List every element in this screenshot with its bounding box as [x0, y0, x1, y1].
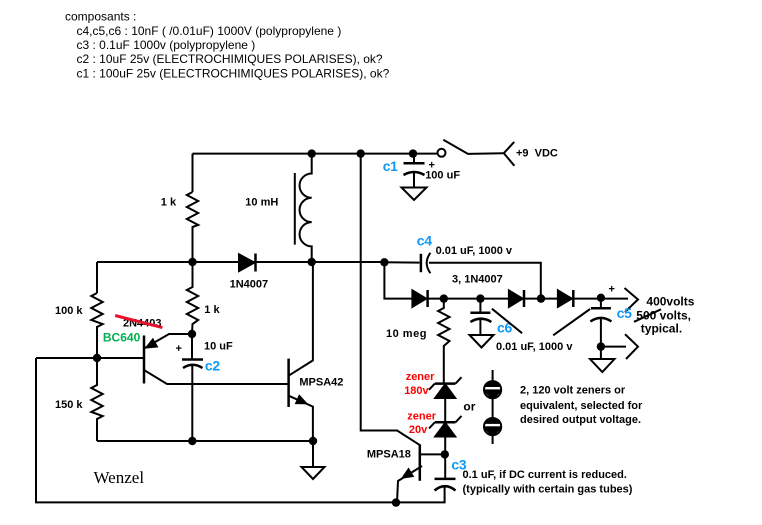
circle symbol alt zener 1 [483, 370, 503, 444]
svg-text:equivalent, selected for: equivalent, selected for [520, 400, 643, 412]
switch terminal circle [438, 149, 446, 157]
svg-text:c2 : 10uF 25v (ELECTROCHIMIQUE: c2 : 10uF 25v (ELECTROCHIMIQUES POLARISE… [77, 52, 383, 66]
label c2 [205, 358, 220, 374]
capacitor C4 [384, 253, 540, 299]
label zener note line2 [520, 400, 643, 412]
svg-text:c4: c4 [417, 233, 432, 249]
label c5 [617, 305, 632, 321]
svg-text:1 k: 1 k [161, 197, 177, 209]
svg-text:c1: c1 [383, 158, 398, 174]
red strikethrough 2N4403 [115, 316, 162, 328]
label 10 meg [386, 328, 427, 340]
capacitor C3 [435, 479, 456, 491]
zener diode Z1 180v [429, 377, 462, 422]
svg-text:20v: 20v [409, 424, 428, 436]
svg-text:zener: zener [407, 411, 436, 423]
svg-text:zener: zener [406, 371, 435, 383]
svg-text:10 mH: 10 mH [245, 197, 278, 209]
svg-text:+: + [176, 343, 182, 355]
connector flag +9VDC [504, 142, 515, 166]
diode D2 [412, 290, 427, 307]
wire c5 to output flag2 [601, 346, 626, 348]
svg-text:100 uF: 100 uF [425, 170, 460, 182]
transistor Q1 BC640 [144, 334, 289, 384]
svg-text:c6: c6 [497, 320, 512, 336]
resistor R 1k (top left) [187, 192, 198, 262]
ground c5 [590, 359, 615, 372]
svg-text:composants :: composants : [65, 10, 136, 24]
zener diode Z2 20v [429, 416, 462, 479]
label MPSA42 [299, 377, 343, 389]
label Wenzel [94, 468, 145, 487]
svg-text:BC640: BC640 [103, 331, 141, 345]
label 0.01 uF, 1000 v second [496, 341, 573, 353]
svg-text:MPSA18: MPSA18 [367, 449, 411, 461]
wire base node to left rail [36, 357, 144, 359]
label 3, 1N4007 [452, 273, 503, 285]
label c3 [451, 457, 466, 473]
label zener 20v [407, 411, 436, 437]
label c3 note line1 [463, 469, 627, 481]
wire MPSA18 collector line from top rail [361, 154, 420, 446]
label c4 [417, 233, 432, 249]
label typical. [641, 322, 682, 336]
svg-text:0.01 uF, 1000 v: 0.01 uF, 1000 v [436, 245, 513, 257]
wire 100k top lead [96, 262, 98, 293]
transistor Q3 MPSA18 [397, 444, 444, 502]
resistor 10 meg [438, 299, 449, 383]
strikethrough 500 [634, 309, 661, 322]
svg-text:c3 : 0.1uF 1000v (polypropylen: c3 : 0.1uF 1000v (polypropylene ) [77, 38, 256, 52]
ground c1 [402, 188, 427, 201]
label 100 uF [425, 170, 460, 182]
label 100 k [55, 305, 83, 317]
wire diode row [384, 262, 628, 299]
wire far left vertical and bottom rail [36, 358, 445, 502]
svg-text:or: or [463, 400, 475, 414]
label 10 mH [245, 197, 278, 209]
svg-text:1N4007: 1N4007 [230, 279, 269, 291]
diode D1 1N4007 [239, 254, 256, 272]
svg-text:2, 120 volt zeners or: 2, 120 volt zeners or [520, 385, 626, 397]
diode D3 [509, 290, 524, 307]
wire mid horizontal rail y=262 [97, 261, 384, 263]
wire lower-left bottom rail y=441 [97, 440, 313, 442]
svg-text:(typically with certain gas tu: (typically with certain gas tubes) [463, 484, 633, 496]
label or [463, 400, 475, 414]
label plus c2 [176, 343, 182, 355]
label BC640 [103, 331, 141, 345]
diode D4 [558, 290, 573, 307]
capacitor C1 [404, 154, 425, 188]
svg-text:desired output voltage.: desired output voltage. [520, 414, 641, 426]
label plus output [609, 284, 615, 296]
wire top rail [193, 153, 438, 155]
svg-text:10 meg: 10 meg [386, 328, 427, 340]
label MPSA18 [367, 449, 411, 461]
svg-text:0.1 uF, if DC current is reduc: 0.1 uF, if DC current is reduced. [463, 469, 627, 481]
connector flag output return [625, 334, 638, 359]
label 0.01 uF, 1000 v [436, 245, 513, 257]
svg-text:c1 : 100uF 25v (ELECTROCHIMIQU: c1 : 100uF 25v (ELECTROCHIMIQUES POLARIS… [77, 66, 390, 80]
slash mark right [553, 309, 590, 335]
label c6 [497, 320, 512, 336]
svg-text:3, 1N4007: 3, 1N4007 [452, 273, 503, 285]
svg-text:180v: 180v [404, 385, 429, 397]
svg-text:c4,c5,c6 : 10nF ( /0.01uF) 100: c4,c5,c6 : 10nF ( /0.01uF) 1000V (polypr… [77, 24, 342, 38]
svg-text:typical.: typical. [641, 322, 682, 336]
svg-text:400volts: 400volts [646, 295, 694, 309]
svg-text:c5: c5 [617, 305, 632, 321]
ground MPSA42 [302, 467, 325, 479]
capacitor C6 [470, 299, 491, 335]
label c3 note line2 [463, 484, 633, 496]
svg-text:Wenzel: Wenzel [94, 468, 145, 487]
wire left drop to R 1k top [192, 154, 194, 192]
svg-text:+: + [609, 284, 615, 296]
label +9 VDC [516, 148, 558, 160]
resistor 150 k [91, 358, 102, 441]
svg-text:1 k: 1 k [204, 304, 220, 316]
label zener 180v [404, 371, 435, 397]
capacitor C2 [182, 334, 203, 441]
label c1 [383, 158, 398, 174]
svg-text:150 k: 150 k [55, 399, 83, 411]
label zener note line3 [520, 414, 641, 426]
ground c6 [470, 335, 494, 348]
transistor Q2 MPSA42 [289, 262, 313, 441]
resistor R 1k (second) [187, 262, 198, 334]
wire MPSA42 emitter to ground [312, 441, 314, 467]
label 500 volts, [636, 309, 691, 323]
label 2N4403 [123, 318, 162, 330]
svg-text:+9 VDC: +9 VDC [516, 148, 558, 160]
label plus c1 [429, 160, 435, 172]
inductor L 10mH [295, 154, 312, 262]
capacitor C5 [590, 299, 611, 359]
label 1 k [161, 197, 177, 209]
label 150 k [55, 399, 83, 411]
svg-text:500 volts,: 500 volts, [636, 309, 691, 323]
label 400volts [646, 295, 694, 309]
label 1N4007 [230, 279, 269, 291]
circle symbol alt zener 2 [483, 418, 503, 435]
svg-text:MPSA42: MPSA42 [299, 377, 343, 389]
slash mark left [492, 309, 522, 334]
label 1 k second [204, 304, 220, 316]
connector flag 400volts output [625, 288, 639, 312]
resistor 100 k [91, 293, 102, 358]
svg-text:10 uF: 10 uF [204, 341, 233, 353]
label zener note line1 [520, 385, 626, 397]
svg-text:100 k: 100 k [55, 305, 83, 317]
label 10 uF [204, 341, 233, 353]
switch blade [443, 140, 504, 154]
svg-text:c2: c2 [205, 358, 220, 374]
parts list text [65, 10, 390, 81]
svg-text:0.01 uF, 1000 v: 0.01 uF, 1000 v [496, 341, 573, 353]
